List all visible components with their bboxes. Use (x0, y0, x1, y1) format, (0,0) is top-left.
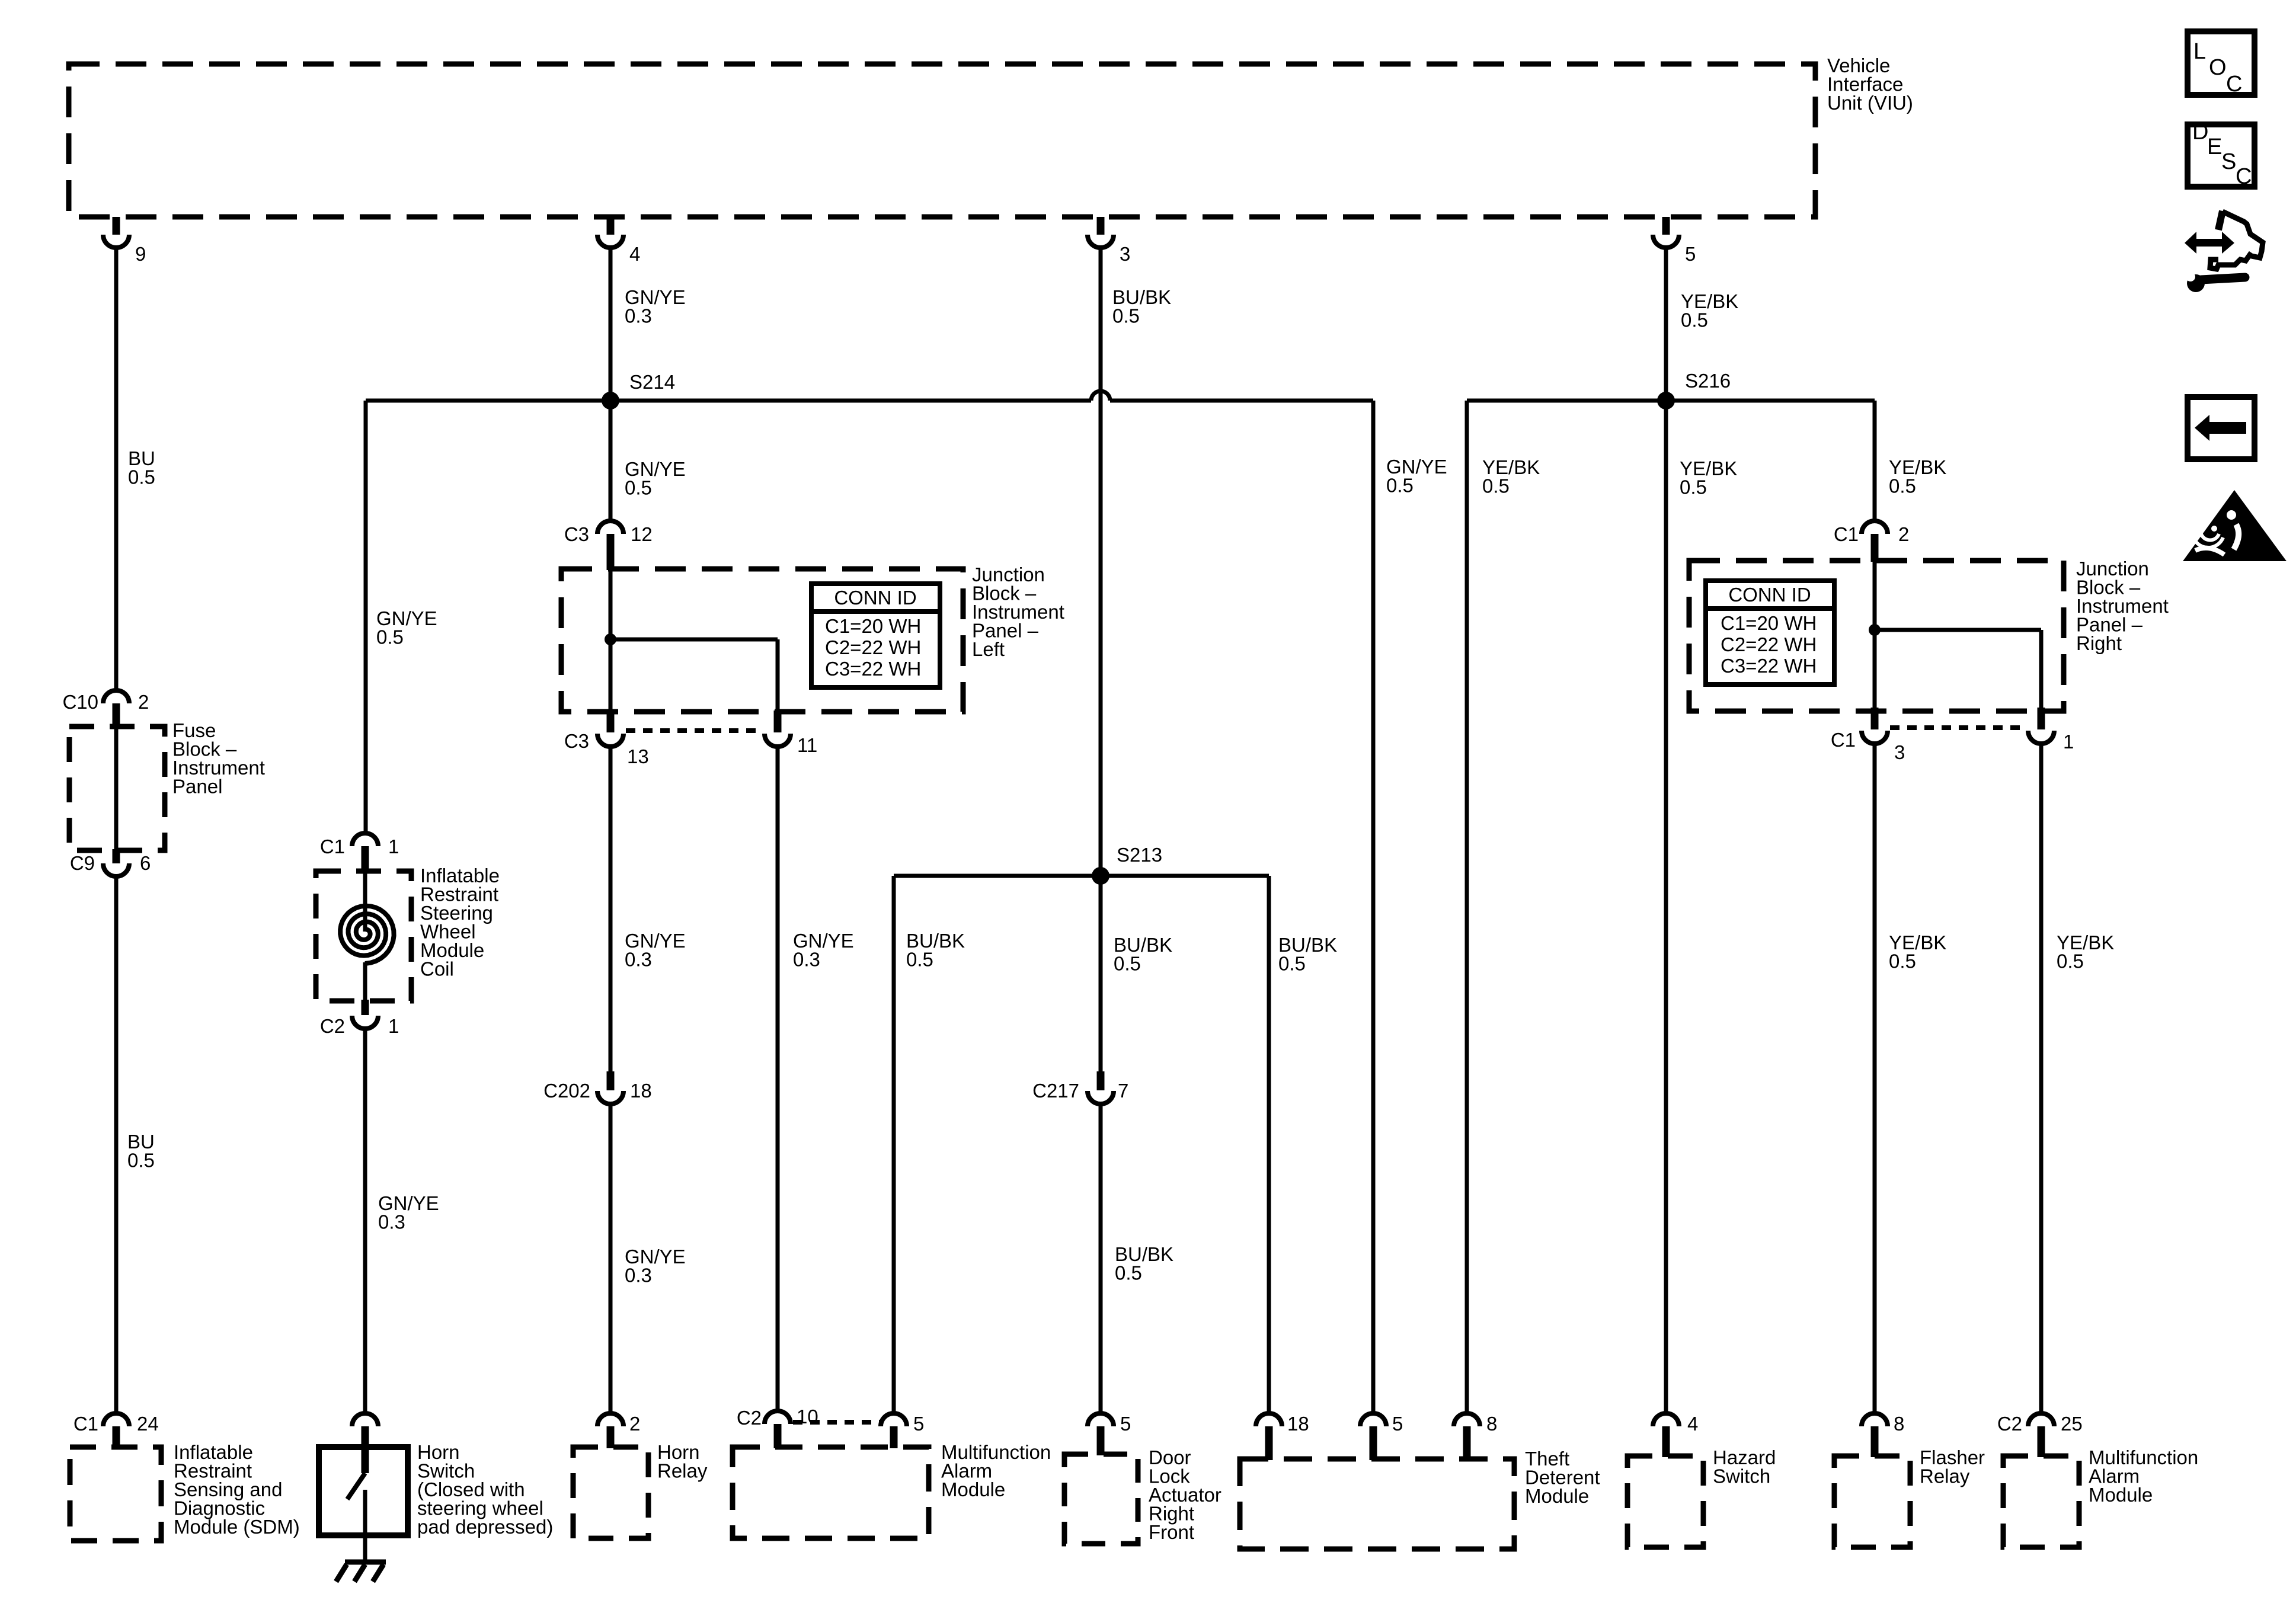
label BU/BK 0.5 (pin3) (1112, 286, 1171, 327)
label coil (420, 865, 500, 980)
wire to ground (363, 1535, 367, 1562)
svg-text:C1: C1 (73, 1413, 98, 1435)
wire YE/BK 0.5 C1/3 to flasher relay (1873, 744, 1877, 1414)
Inflatable Restraint Steering Wheel Module Coil dashed box (316, 871, 411, 1001)
connector C202 pin 18 (543, 1071, 652, 1104)
label Theft Deterent Module (1525, 1448, 1600, 1507)
node S214 junction dot (602, 371, 675, 409)
svg-text:0.5: 0.5 (376, 626, 404, 648)
svg-text:0.5: 0.5 (2057, 950, 2084, 972)
wire inside junction block right (1873, 561, 1877, 708)
wire GN/YE 0.5 S214 to C3/12 (609, 401, 613, 521)
VIU pin 4 connector (597, 217, 640, 265)
Flasher Relay dashed box (1834, 1456, 1910, 1547)
svg-text:Module (SDM): Module (SDM) (174, 1516, 300, 1538)
wire BU/BK 0.5 C217 to door lock (1099, 1104, 1103, 1414)
branch wire to pin 11 (610, 639, 778, 711)
label Junction Block left (972, 564, 1064, 660)
connector C217 pin 7 (1032, 1071, 1128, 1104)
label Multifunction Alarm Module (left) (941, 1441, 1051, 1500)
dotted tie between C1/3 and 1 (1890, 725, 2027, 730)
svg-text:0.5: 0.5 (1112, 305, 1140, 327)
svg-text:Coil: Coil (420, 958, 454, 980)
label: Vehicle Interface Unit (VIU) (1827, 55, 1913, 114)
label Flasher Relay (1920, 1446, 1985, 1487)
svg-text:13: 13 (627, 745, 649, 767)
svg-text:5: 5 (913, 1413, 924, 1435)
svg-text:1: 1 (2063, 731, 2074, 753)
svg-text:0.5: 0.5 (1386, 475, 1414, 497)
connector pin 11 (765, 711, 817, 756)
label YE/BK 0.5 (x2475) (1482, 456, 1540, 497)
back arrow icon box (2188, 397, 2255, 459)
svg-text:0.5: 0.5 (1889, 475, 1916, 497)
label Fuse Block (172, 719, 265, 798)
svg-text:C2=22 WH: C2=22 WH (825, 636, 921, 658)
node S213 junction dot (1092, 844, 1162, 885)
label GN/YE 0.3 (pin4) (625, 286, 686, 327)
connector C1 pin 24 at SDM (73, 1413, 159, 1448)
wire GN/YE 0.3 pin11 to MAM C2/10 (776, 747, 780, 1412)
svg-text:3: 3 (1894, 741, 1905, 763)
branch wire to pin 1 (1875, 630, 2041, 708)
Hazard Switch dashed box (1627, 1456, 1703, 1547)
svg-text:2: 2 (1898, 523, 1909, 545)
wire YE/BK 0.5 from S216 to theft pin 8 (1465, 401, 1469, 1414)
label GN/YE 0.3 (horn switch wire) (378, 1192, 439, 1233)
wire GN/YE 0.5 from S214 down to coil C1 (364, 401, 368, 833)
label Multifunction Alarm Module (right) (2089, 1446, 2198, 1506)
connector pin 8 at theft module (1454, 1413, 1497, 1460)
VIU pin 3 connector (1088, 217, 1130, 265)
label GN/YE 0.5 (coil wire) (376, 607, 437, 648)
svg-text:9: 9 (135, 243, 146, 265)
svg-text:C2: C2 (320, 1015, 345, 1037)
dotted tie between C2/10 and 5 (793, 1420, 880, 1425)
label BU 0.5 (upper) (128, 447, 155, 488)
svg-text:C1: C1 (1834, 523, 1859, 545)
svg-text:0.5: 0.5 (906, 949, 933, 971)
Door Lock Actuator Right Front dashed box (1064, 1454, 1138, 1544)
svg-text:5: 5 (1392, 1413, 1403, 1435)
junction dot inside JB left (605, 633, 616, 645)
label YE/BK 0.5 (pin5) (1681, 290, 1738, 331)
label Door Lock Actuator Right Front (1149, 1446, 1221, 1543)
svg-text:S213: S213 (1117, 844, 1162, 866)
svg-text:0.5: 0.5 (1680, 476, 1707, 498)
connector pin 1 (2028, 708, 2074, 753)
wire GN/YE 0.3 from coil to horn switch (363, 1029, 367, 1414)
label GN/YE 0.3 (x1312) (793, 930, 854, 971)
connector pin 8 at flasher relay (1862, 1413, 1904, 1457)
wire YE/BK 0.5 S216 to C1/2 (1873, 401, 1877, 521)
connector pin 18 at theft module (1256, 1413, 1309, 1460)
S216 horizontal trunk wire (1467, 399, 1875, 403)
coil spiral symbol (340, 872, 394, 1000)
svg-text:1: 1 (388, 836, 399, 857)
svg-text:CONN ID: CONN ID (834, 587, 916, 609)
svg-text:25: 25 (2061, 1413, 2083, 1435)
wire BU 0.5 from VIU pin 9 to C10 (114, 248, 119, 690)
label YE/BK 0.5 (x3163 lower) (1889, 932, 1946, 972)
label SDM (174, 1441, 300, 1538)
svg-text:pad depressed): pad depressed) (417, 1516, 553, 1538)
svg-text:C1: C1 (1831, 729, 1856, 751)
VIU pin 9 connector (103, 217, 146, 265)
svg-text:0.5: 0.5 (1278, 953, 1306, 975)
node S216 junction dot (1657, 370, 1731, 409)
svg-text:C: C (2236, 164, 2252, 189)
svg-text:Unit (VIU): Unit (VIU) (1827, 92, 1913, 114)
svg-text:0.5: 0.5 (625, 477, 652, 499)
connector C2 pin 10 at MAM (737, 1406, 818, 1448)
svg-text:6: 6 (140, 852, 151, 874)
CONN ID table left (811, 584, 940, 687)
svg-text:2: 2 (629, 1413, 640, 1435)
svg-text:C: C (2226, 72, 2242, 97)
label BU/BK 0.5 (x1508) (906, 930, 965, 971)
svg-text:1: 1 (388, 1015, 399, 1037)
wire BU/BK 0.5 from S213 to theft pin 18 (1267, 876, 1271, 1414)
svg-text:11: 11 (797, 734, 817, 756)
svg-text:C3=22 WH: C3=22 WH (1721, 655, 1817, 677)
label Hazard Switch (1713, 1446, 1776, 1487)
svg-text:0.5: 0.5 (127, 1150, 155, 1172)
wire GN/YE 0.3 C202 to horn relay (609, 1104, 613, 1414)
svg-text:5: 5 (1120, 1413, 1131, 1435)
LOC icon box (2188, 31, 2255, 97)
wire BU/BK 0.5 from S213 to MAM pin 5 (892, 876, 896, 1414)
svg-text:C2=22 WH: C2=22 WH (1721, 633, 1817, 655)
svg-text:0.5: 0.5 (1681, 309, 1708, 331)
svg-text:Relay: Relay (657, 1460, 708, 1482)
svg-text:4: 4 (629, 243, 640, 265)
svg-text:Module: Module (1525, 1485, 1589, 1507)
connector pin 5 at MAM (881, 1413, 924, 1448)
wire inside junction block left (609, 569, 613, 711)
wire GN/YE 0.3 C3/13 to C202 (609, 747, 613, 1073)
connector C9 pin 6 (70, 849, 151, 876)
ground symbol (336, 1562, 386, 1582)
dotted tie between C3/13 and 11 (626, 728, 763, 733)
connector C1 pin 1 at coil (320, 833, 399, 872)
label BU/BK 0.5 (below C217) (1115, 1243, 1173, 1284)
svg-text:L: L (2193, 39, 2206, 64)
svg-text:D: D (2192, 120, 2208, 145)
wire YE/BK 0.5 VIU pin5 to S216 (1664, 248, 1668, 401)
svg-text:Front: Front (1149, 1521, 1194, 1543)
label GN/YE 0.3 (below C202) (625, 1246, 686, 1286)
svg-text:C10: C10 (62, 691, 98, 713)
svg-text:S: S (2221, 149, 2236, 174)
diagnostic tool icon (double arrow, outline, wrench) (2182, 211, 2263, 292)
wire BU/BK 0.5 VIU pin3 down through S213 (1099, 248, 1103, 1073)
junction dot inside JB right (1869, 624, 1881, 636)
svg-text:Left: Left (972, 638, 1005, 660)
label Horn Relay (657, 1441, 708, 1482)
svg-text:S214: S214 (629, 371, 675, 393)
connector C2 pin 25 at MAM right (1997, 1413, 2083, 1457)
svg-text:18: 18 (1287, 1413, 1309, 1435)
connector C3 pin 12 (564, 521, 653, 570)
svg-text:24: 24 (137, 1413, 159, 1435)
svg-text:0.3: 0.3 (625, 1265, 652, 1286)
svg-text:Panel: Panel (172, 776, 222, 798)
label YE/BK 0.5 (x3444) (2057, 932, 2114, 972)
svg-text:Switch: Switch (1713, 1465, 1770, 1487)
airbag caution triangle (2183, 490, 2287, 561)
svg-text:Module: Module (2089, 1484, 2153, 1506)
wire YE/BK 0.5 S216 to hazard switch (1664, 401, 1668, 1414)
label Junction Block right (2076, 558, 2169, 654)
S214 horizontal trunk wire with hop over BU/BK wire (366, 391, 1373, 401)
Junction Block - Instrument Panel - Left dashed box (561, 569, 963, 712)
label GN/YE 0.5 (x2317) (1386, 456, 1447, 497)
connector pin 5 at door lock actuator (1088, 1413, 1131, 1455)
svg-text:Relay: Relay (1920, 1465, 1970, 1487)
connector pin 4 at hazard switch (1653, 1413, 1698, 1457)
Horn Relay dashed box (573, 1447, 648, 1538)
svg-text:C1: C1 (320, 836, 345, 857)
svg-text:0.5: 0.5 (128, 466, 155, 488)
horn switch contacts (347, 1450, 365, 1535)
svg-text:CONN ID: CONN ID (1728, 584, 1811, 606)
connector C2 pin 1 below coil (320, 1000, 399, 1037)
connector C3 pin 13 (564, 711, 649, 767)
label Horn Switch (417, 1441, 553, 1538)
svg-text:0.5: 0.5 (1889, 950, 1916, 972)
Multifunction Alarm Module dashed box (right) (2003, 1456, 2079, 1547)
svg-text:0.3: 0.3 (378, 1211, 405, 1233)
svg-text:C202: C202 (543, 1080, 590, 1102)
Multifunction Alarm Module dashed box (left) (733, 1447, 929, 1538)
connector C1 pin 3 (1831, 708, 1905, 763)
svg-text:C1=20 WH: C1=20 WH (1721, 612, 1817, 634)
svg-text:0.5: 0.5 (1114, 953, 1141, 975)
svg-text:C3=22 WH: C3=22 WH (825, 658, 921, 680)
svg-text:8: 8 (1486, 1413, 1497, 1435)
svg-text:0.5: 0.5 (1115, 1262, 1142, 1284)
label YE/BK 0.5 (x3163) (1889, 456, 1946, 497)
svg-text:C9: C9 (70, 852, 95, 874)
svg-text:C2: C2 (737, 1407, 762, 1429)
svg-text:3: 3 (1120, 243, 1130, 265)
svg-text:4: 4 (1687, 1413, 1698, 1435)
svg-text:C3: C3 (564, 730, 589, 752)
label BU/BK 0.5 (below S213) (1114, 934, 1172, 975)
wire through fuse block (114, 729, 119, 849)
VIU pin 5 connector (1653, 217, 1696, 265)
svg-text:0.3: 0.3 (793, 949, 820, 971)
svg-text:C3: C3 (564, 523, 589, 545)
svg-text:12: 12 (631, 523, 653, 545)
svg-text:5: 5 (1685, 243, 1696, 265)
wire YE/BK 0.5 pin1 to MAM right (2039, 744, 2044, 1414)
connector at horn switch (352, 1413, 378, 1448)
wire BU 0.5 from C9 to SDM (114, 876, 119, 1414)
label BU/BK 0.5 (x2141) (1278, 934, 1337, 975)
S213 horizontal trunk wire (894, 874, 1269, 878)
connector C1 pin 2 at JB right (1834, 521, 1910, 562)
Theft Deterent Module dashed box (1240, 1459, 1514, 1549)
svg-text:0.3: 0.3 (625, 305, 652, 327)
svg-text:C217: C217 (1032, 1080, 1079, 1102)
svg-text:8: 8 (1894, 1413, 1904, 1435)
svg-text:E: E (2207, 135, 2222, 159)
Junction Block - Instrument Panel - Right dashed box (1689, 561, 2064, 711)
svg-text:Module: Module (941, 1478, 1005, 1500)
Horn Switch solid box (319, 1447, 408, 1535)
Vehicle Interface Unit (VIU) dashed box (69, 64, 1815, 217)
svg-text:2: 2 (138, 691, 149, 713)
svg-text:S216: S216 (1685, 370, 1731, 392)
label GN/YE 0.5 (below S214) (625, 458, 686, 499)
connector pin 2 at horn relay (597, 1413, 640, 1448)
svg-text:7: 7 (1118, 1080, 1128, 1102)
CONN ID table right (1706, 581, 1834, 684)
connector pin 5 at theft module (1360, 1413, 1403, 1460)
DESC icon box (2188, 120, 2255, 189)
Fuse Block - Instrument Panel dashed box (69, 727, 165, 850)
svg-text:C2: C2 (1997, 1413, 2022, 1435)
svg-text:C1=20 WH: C1=20 WH (825, 615, 921, 637)
svg-text:O: O (2209, 55, 2227, 80)
wire GN/YE 0.5 from S214 to theft pin 5 (1371, 401, 1376, 1414)
wire GN/YE 0.3 VIU pin4 to S214 (609, 248, 613, 401)
label YE/BK 0.5 (below S216) (1680, 457, 1737, 498)
label BU 0.5 (lower) (127, 1131, 155, 1172)
svg-text:0.3: 0.3 (625, 949, 652, 971)
svg-text:18: 18 (630, 1080, 652, 1102)
svg-text:0.5: 0.5 (1482, 475, 1510, 497)
svg-text:Right: Right (2076, 632, 2122, 654)
Inflatable Restraint Sensing and Diagnostic Module (SDM) dashed box (70, 1447, 161, 1541)
connector C10 pin 2 (62, 690, 149, 728)
label GN/YE 0.3 (below C3/13) (625, 930, 686, 971)
